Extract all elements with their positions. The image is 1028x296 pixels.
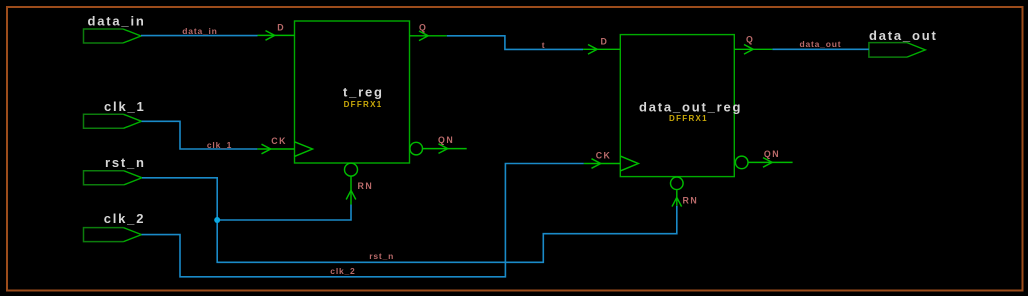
wire clk_2: [142, 164, 584, 277]
svg-text:t: t: [542, 40, 546, 50]
junction dot: [214, 217, 220, 223]
svg-text:clk_2: clk_2: [104, 211, 146, 226]
port rst_n: [84, 171, 125, 185]
data_out_reg pin D stub: [583, 45, 620, 55]
svg-text:data_in: data_in: [182, 26, 217, 36]
t_reg pin CK stub: [257, 144, 294, 154]
port data_in: [84, 29, 124, 43]
svg-text:D: D: [277, 23, 285, 33]
svg-text:t_reg: t_reg: [343, 85, 384, 100]
svg-text:CK: CK: [596, 150, 612, 160]
svg-text:CK: CK: [271, 136, 287, 146]
svg-text:data_out: data_out: [800, 39, 842, 49]
data_out_reg pin RN bubble and stub: [671, 177, 684, 207]
svg-text:Q: Q: [419, 22, 427, 32]
wire clk_1: [142, 121, 258, 149]
data_out_reg pin Q stub: [734, 45, 772, 55]
svg-text:rst_n: rst_n: [369, 251, 394, 261]
svg-text:RN: RN: [358, 181, 374, 191]
t_reg pin RN bubble and stub: [345, 163, 358, 205]
t_reg pin Q stub: [410, 31, 447, 41]
svg-text:DFFRX1: DFFRX1: [669, 114, 708, 123]
svg-text:D: D: [601, 37, 609, 47]
svg-text:data_in: data_in: [88, 14, 146, 29]
svg-text:clk_2: clk_2: [330, 266, 355, 276]
flip-flop U2 data_out_reg body: [620, 35, 734, 177]
data_out_reg clock wedge: [620, 156, 638, 171]
port clk_1: [84, 114, 124, 128]
wire data_out: [772, 48, 869, 50]
port clk_2: [84, 228, 124, 242]
svg-text:QN: QN: [764, 149, 780, 159]
flip-flop U1 t_reg body: [295, 21, 410, 163]
wire rst_n trunk: [142, 178, 677, 262]
data_out_reg pin CK stub: [584, 159, 621, 169]
svg-text:clk_1: clk_1: [207, 140, 232, 150]
t_reg clock wedge: [295, 142, 313, 157]
wire data_in: [141, 35, 258, 37]
svg-text:clk_1: clk_1: [104, 99, 146, 114]
svg-text:rst_n: rst_n: [105, 155, 146, 170]
t_reg pin QN bubble and stub: [410, 142, 467, 155]
wire rst_n branch to t_reg RN: [217, 205, 351, 221]
svg-text:QN: QN: [438, 135, 454, 145]
svg-text:Q: Q: [746, 35, 754, 45]
svg-text:data_out_reg: data_out_reg: [639, 100, 742, 115]
data_out_reg pin QN bubble and stub: [735, 156, 792, 169]
svg-text:RN: RN: [683, 195, 699, 205]
wire t: [447, 36, 583, 50]
t_reg pin D stub: [258, 31, 295, 41]
svg-text:data_out: data_out: [869, 28, 938, 43]
port data_out: [869, 43, 907, 58]
svg-text:DFFRX1: DFFRX1: [344, 100, 383, 109]
